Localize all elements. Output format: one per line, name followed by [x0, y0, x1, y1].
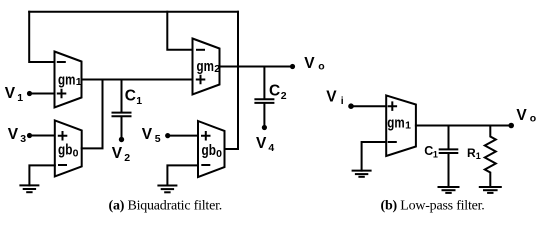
- gm1 (low-pass) - input mark: [389, 141, 396, 143]
- op-amp gb0 #2 (OTA): [198, 121, 225, 177]
- svg-text:C: C: [269, 83, 280, 100]
- svg-text:V: V: [304, 55, 315, 72]
- ground (gb0 #2): [158, 185, 176, 187]
- wire: gm1 output to gm2 + input: [82, 79, 193, 81]
- svg-text:gm: gm: [197, 59, 214, 75]
- svg-text:V: V: [256, 135, 267, 152]
- svg-text:1: 1: [17, 92, 23, 104]
- gm1 (low-pass) + input mark: [389, 102, 397, 110]
- svg-text:2: 2: [281, 90, 287, 102]
- gm2 - input mark: [197, 49, 204, 51]
- svg-text:4: 4: [268, 142, 274, 154]
- svg-text:C: C: [424, 144, 433, 158]
- wire: Vi to gm1 + input (low-pass): [351, 105, 386, 107]
- wire: feedback down to gm1 inverting input: [29, 12, 54, 62]
- svg-text:o: o: [318, 60, 324, 72]
- svg-text:i: i: [341, 95, 344, 107]
- svg-text:V: V: [516, 107, 527, 124]
- op-amp gm1 (OTA): [55, 52, 82, 108]
- svg-text:gm: gm: [58, 72, 75, 88]
- capacitor C2 bottom lead: [263, 104, 265, 128]
- svg-text:(a) Biquadratic filter.: (a) Biquadratic filter.: [109, 199, 223, 214]
- node V1 terminal: [27, 91, 32, 96]
- wire: V1 to gm1 + input: [30, 93, 55, 95]
- capacitor C1 (biquad) top lead: [121, 80, 123, 112]
- gm1 + input mark: [58, 90, 66, 98]
- svg-text:(b) Low-pass filter.: (b) Low-pass filter.: [381, 199, 485, 214]
- svg-text:C: C: [125, 88, 136, 105]
- svg-text:V: V: [8, 126, 19, 143]
- svg-text:1: 1: [76, 76, 82, 88]
- wire: gb0 #2 output riser to feedback bus: [225, 12, 239, 149]
- svg-text:o: o: [530, 113, 536, 125]
- node Vi terminal: [348, 103, 354, 109]
- capacitor C1 (low-pass) plates: [440, 148, 458, 150]
- wire: gb0 #1 - input to ground: [29, 165, 54, 185]
- wire: gb0 #2 - input to ground: [167, 165, 198, 185]
- svg-text:gm: gm: [387, 116, 404, 132]
- gm1 - input mark: [58, 61, 65, 63]
- wire: V5 to gb0 #2 + input: [168, 135, 198, 137]
- gb0 #2 + input mark: [202, 132, 210, 140]
- gb0 #2 - input mark: [202, 164, 209, 166]
- svg-text:2: 2: [214, 63, 220, 75]
- svg-text:3: 3: [20, 133, 26, 145]
- ground (gb0 #1): [20, 184, 38, 186]
- node Vo terminal (low-pass): [508, 123, 514, 129]
- wire: gm1 - input to ground (low-pass): [362, 142, 387, 171]
- gm2 + input mark: [197, 76, 205, 84]
- svg-text:1: 1: [136, 95, 142, 107]
- node V3 terminal: [27, 133, 32, 138]
- svg-text:gb: gb: [58, 143, 73, 159]
- svg-text:0: 0: [216, 148, 222, 160]
- wire: top feedback bus: [29, 11, 238, 13]
- op-amp gm2 (OTA): [193, 39, 220, 95]
- wire: gm1 output to Vo (low-pass): [416, 125, 511, 127]
- capacitor C1 plates: [113, 112, 131, 114]
- svg-text:V: V: [5, 85, 16, 102]
- svg-text:2: 2: [124, 152, 130, 164]
- capacitor C2 plates: [255, 98, 273, 100]
- svg-text:R: R: [467, 146, 476, 160]
- svg-text:1: 1: [405, 120, 411, 132]
- svg-text:gb: gb: [202, 143, 217, 159]
- svg-text:1: 1: [476, 151, 481, 161]
- node V2 terminal: [119, 137, 124, 142]
- ground (R1): [480, 186, 501, 188]
- wire: feedback branch down to gm2 inverting input: [167, 12, 192, 50]
- svg-text:V: V: [142, 126, 153, 143]
- ground (C1 low-pass): [439, 186, 459, 188]
- wire: gb0 #1 output riser to gm1 output node: [82, 80, 103, 149]
- svg-text:5: 5: [155, 133, 161, 145]
- svg-text:V: V: [112, 145, 123, 162]
- svg-text:1: 1: [433, 150, 438, 160]
- capacitor C1 bottom lead: [121, 117, 123, 139]
- op-amp gm1 (low-pass OTA): [386, 95, 416, 156]
- wire: gm2 output to Vo: [220, 66, 293, 68]
- capacitor C1 (low-pass) bottom lead: [448, 154, 450, 187]
- gb0 #1 + input mark: [59, 132, 67, 140]
- svg-text:0: 0: [73, 148, 79, 160]
- node Vo terminal (biquad): [290, 64, 295, 69]
- capacitor C2 top lead: [263, 67, 265, 99]
- node V5 terminal: [165, 133, 170, 138]
- node V4 terminal: [262, 125, 267, 130]
- resistor R1: [485, 126, 496, 188]
- capacitor C1 (low-pass) top lead: [448, 126, 450, 149]
- ground (gm1 - input, low-pass): [353, 170, 371, 172]
- op-amp gb0 #1 (OTA): [55, 120, 82, 176]
- wire: V3 to gb0 #1 + input: [30, 135, 55, 137]
- svg-text:V: V: [326, 89, 337, 106]
- gb0 #1 - input mark: [59, 164, 66, 166]
